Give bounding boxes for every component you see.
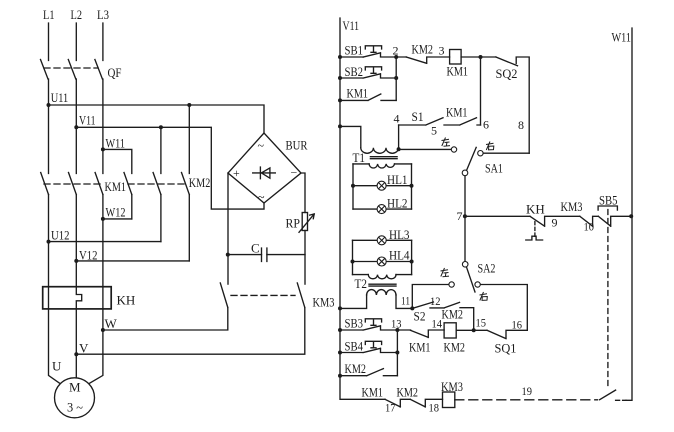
svg-text:SA2: SA2 xyxy=(478,261,496,276)
svg-text:W12: W12 xyxy=(106,205,126,220)
svg-text:13: 13 xyxy=(391,317,402,331)
svg-text:HL3: HL3 xyxy=(389,227,410,242)
svg-text:V12: V12 xyxy=(79,248,98,263)
svg-text:U: U xyxy=(52,359,62,374)
svg-text:SB5: SB5 xyxy=(599,193,618,208)
svg-text:14: 14 xyxy=(432,317,443,331)
svg-text:SB1: SB1 xyxy=(345,43,364,58)
svg-text:KH: KH xyxy=(526,202,545,217)
svg-text:V11: V11 xyxy=(343,18,360,33)
svg-text:L2: L2 xyxy=(71,7,83,22)
svg-text:15: 15 xyxy=(476,316,487,330)
svg-text:S2: S2 xyxy=(414,309,426,324)
svg-text:18: 18 xyxy=(429,401,440,415)
svg-text:−: − xyxy=(291,166,298,180)
svg-text:S1: S1 xyxy=(412,109,424,124)
svg-text:KH: KH xyxy=(117,293,136,308)
svg-text:KM2: KM2 xyxy=(397,385,419,400)
svg-text:KM2: KM2 xyxy=(189,175,211,190)
svg-text:3: 3 xyxy=(439,44,445,58)
svg-text:KM3: KM3 xyxy=(561,199,583,214)
svg-text:RP: RP xyxy=(286,216,301,231)
svg-text:U12: U12 xyxy=(51,228,70,243)
svg-text:HL2: HL2 xyxy=(387,196,408,211)
svg-text:KM1: KM1 xyxy=(446,105,468,120)
svg-text:KM1: KM1 xyxy=(347,86,369,101)
svg-text:SB4: SB4 xyxy=(345,339,364,354)
svg-text:3 ~: 3 ~ xyxy=(67,400,83,415)
svg-text:10: 10 xyxy=(584,220,595,234)
svg-text:+: + xyxy=(233,166,240,180)
svg-text:SQ2: SQ2 xyxy=(496,66,518,81)
svg-text:KM2: KM2 xyxy=(442,307,464,322)
svg-text:W11: W11 xyxy=(612,30,632,45)
svg-text:19: 19 xyxy=(522,384,533,398)
svg-text:T1: T1 xyxy=(353,150,366,165)
svg-text:7: 7 xyxy=(457,209,463,223)
svg-text:11: 11 xyxy=(401,294,410,308)
svg-text:SQ1: SQ1 xyxy=(495,341,517,356)
svg-text:V: V xyxy=(79,341,89,356)
svg-text:16: 16 xyxy=(512,318,523,332)
svg-text:V11: V11 xyxy=(79,113,96,128)
svg-text:HL1: HL1 xyxy=(387,172,408,187)
svg-text:L1: L1 xyxy=(43,7,55,22)
svg-text:12: 12 xyxy=(430,294,441,308)
svg-text:KM1: KM1 xyxy=(105,179,127,194)
svg-text:~: ~ xyxy=(258,190,265,204)
svg-text:HL4: HL4 xyxy=(389,248,410,263)
svg-text:T2: T2 xyxy=(355,276,368,291)
svg-text:4: 4 xyxy=(394,112,400,126)
svg-text:17: 17 xyxy=(385,401,396,415)
svg-text:KM2: KM2 xyxy=(345,361,367,376)
svg-text:~: ~ xyxy=(258,139,265,153)
svg-text:9: 9 xyxy=(552,216,558,230)
svg-text:M: M xyxy=(69,380,81,395)
svg-text:KM1: KM1 xyxy=(362,385,384,400)
svg-text:SB2: SB2 xyxy=(345,64,364,79)
svg-text:2: 2 xyxy=(393,44,399,58)
svg-text:C: C xyxy=(251,241,260,256)
svg-text:6: 6 xyxy=(483,118,489,132)
svg-text:KM3: KM3 xyxy=(441,379,463,394)
svg-text:KM2: KM2 xyxy=(444,340,466,355)
svg-text:BUR: BUR xyxy=(286,138,308,153)
svg-text:KM1: KM1 xyxy=(447,64,469,79)
svg-text:W: W xyxy=(105,316,118,331)
svg-text:QF: QF xyxy=(108,65,122,80)
svg-text:5: 5 xyxy=(431,124,437,138)
svg-text:KM1: KM1 xyxy=(409,340,431,355)
svg-text:U11: U11 xyxy=(51,90,68,105)
svg-text:W11: W11 xyxy=(106,136,126,151)
svg-text:KM2: KM2 xyxy=(412,42,434,57)
svg-text:KM3: KM3 xyxy=(313,295,335,310)
svg-text:SB3: SB3 xyxy=(345,316,364,331)
svg-text:8: 8 xyxy=(518,118,524,132)
svg-text:L3: L3 xyxy=(97,7,109,22)
svg-text:SA1: SA1 xyxy=(485,161,503,176)
